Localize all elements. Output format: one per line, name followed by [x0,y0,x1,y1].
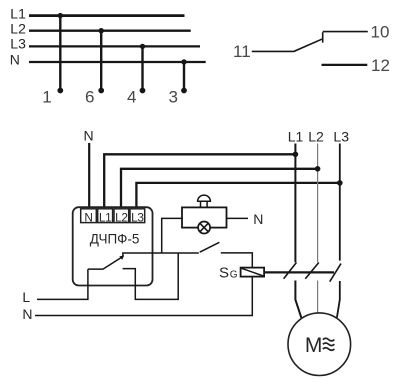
svg-text:L3: L3 [131,210,144,224]
svg-text:L2: L2 [10,21,26,37]
svg-text:11: 11 [233,42,251,61]
svg-text:L2: L2 [115,210,128,224]
svg-text:S: S [219,264,229,281]
svg-text:М: М [305,334,323,357]
svg-text:N: N [253,211,263,227]
svg-text:3: 3 [168,87,177,106]
svg-text:N: N [10,51,20,67]
svg-text:L3: L3 [333,128,349,144]
svg-text:12: 12 [371,56,390,75]
svg-text:N: N [84,128,94,144]
svg-text:L1: L1 [288,128,304,144]
svg-text:L1: L1 [10,5,26,21]
svg-text:L: L [22,289,30,305]
svg-text:4: 4 [127,87,136,106]
svg-text:L1: L1 [99,210,112,224]
svg-text:L2: L2 [308,128,324,144]
svg-text:N: N [84,210,92,224]
svg-text:6: 6 [85,87,94,106]
svg-text:10: 10 [371,23,390,42]
svg-text:G: G [230,269,238,280]
svg-text:N: N [22,306,32,322]
svg-text:1: 1 [42,87,51,106]
svg-text:L3: L3 [10,36,26,52]
svg-text:ДЧПФ-5: ДЧПФ-5 [90,232,140,247]
